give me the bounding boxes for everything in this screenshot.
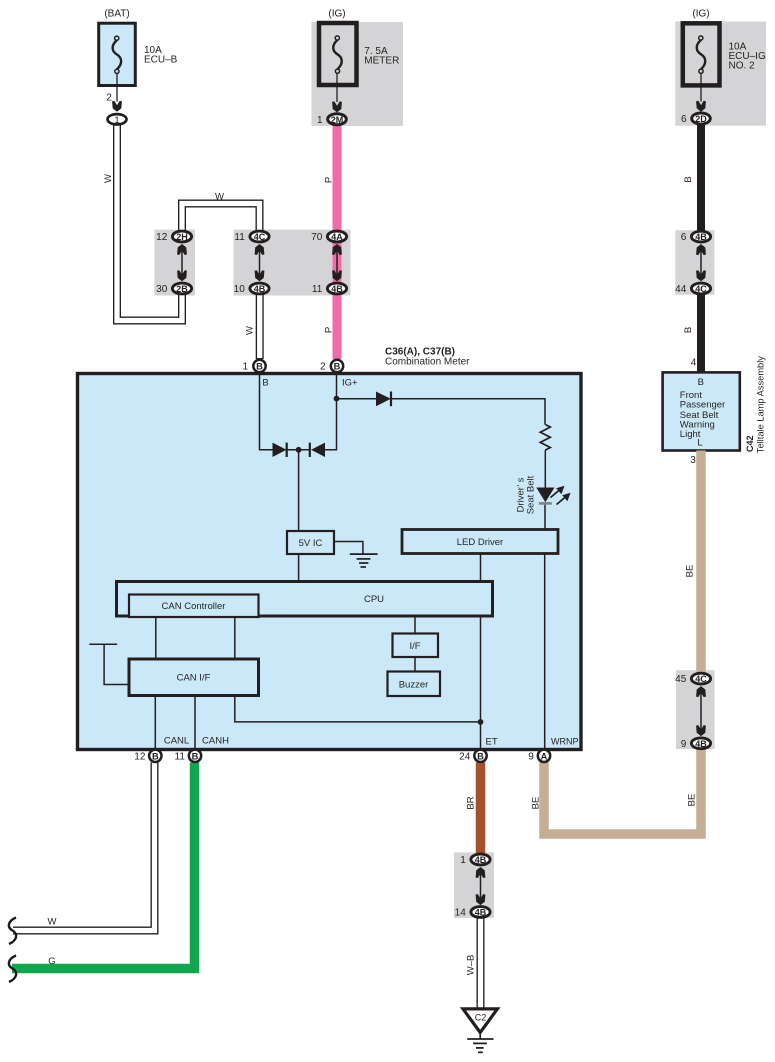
wire junction to 5V IC xyxy=(298,450,300,531)
wire B black 2D to 6(4B) xyxy=(697,125,705,231)
LED Driver box xyxy=(402,530,558,554)
svg-text:9: 9 xyxy=(681,739,687,750)
connector 11-4B xyxy=(312,283,347,295)
svg-text:4A: 4A xyxy=(331,232,343,242)
svg-text:W: W xyxy=(215,192,224,203)
terminal 1-B top of meter xyxy=(242,360,265,373)
connector arrows 4B-4B bottom xyxy=(476,867,486,905)
terminal 24-B bottom xyxy=(459,750,487,763)
termination symbol left of CAN I/F xyxy=(89,644,127,684)
svg-text:4: 4 xyxy=(691,358,697,369)
wire W white double-line 12(B) to left edge xyxy=(13,762,155,931)
gray panel (IG) METER fuse area xyxy=(312,22,404,126)
svg-text:4B: 4B xyxy=(331,284,343,294)
wire W-B white-black double-line 14(4B) to ground C2 xyxy=(477,917,485,1011)
wire IG+ down xyxy=(336,374,338,400)
svg-text:B: B xyxy=(683,176,694,182)
svg-text:2D: 2D xyxy=(695,114,707,124)
wire G green 11(B) to left edge xyxy=(12,763,195,969)
svg-text:B: B xyxy=(477,751,484,761)
svg-text:4B: 4B xyxy=(475,855,487,865)
connector 11-4C xyxy=(234,231,269,243)
wires CAN controller to CAN I/F xyxy=(155,618,157,660)
fuse 7.5A METER (IG) xyxy=(319,9,399,113)
LED driver's seat belt xyxy=(536,488,554,503)
svg-text:ET: ET xyxy=(486,737,498,748)
svg-text:12: 12 xyxy=(156,232,168,243)
diode D3 xyxy=(376,392,391,407)
wire B internal xyxy=(260,374,273,450)
svg-text:(IG): (IG) xyxy=(692,9,709,20)
CAN Controller box xyxy=(129,595,259,618)
connector 70-4A xyxy=(311,231,346,243)
wire P pink 2M to 2(B) xyxy=(333,126,342,360)
terminal 1 oval (BAT fuse) xyxy=(108,114,127,126)
wire WRNP vertical xyxy=(544,554,546,749)
wire to junction xyxy=(287,449,310,451)
connector arrows 4C-4B right mid xyxy=(696,686,706,736)
svg-text:(BAT): (BAT) xyxy=(104,9,129,20)
wire W white double-line 2H to 4C xyxy=(182,204,260,232)
connector 30-2B xyxy=(156,283,191,295)
svg-text:14: 14 xyxy=(455,908,467,919)
gray panel connector 2H/2B xyxy=(154,230,195,296)
svg-text:ECU–B: ECU–B xyxy=(144,55,178,66)
wire BE tan 9(A) to 9(4B) lower run xyxy=(544,749,701,834)
wire D2 to IG+ xyxy=(324,399,337,450)
svg-text:IG+: IG+ xyxy=(342,378,358,389)
svg-text:CAN Controller: CAN Controller xyxy=(162,601,226,612)
wire resistor to LED xyxy=(544,450,546,488)
svg-text:A: A xyxy=(541,751,548,761)
combination meter box C36/C37 xyxy=(78,374,582,750)
svg-text:1: 1 xyxy=(114,115,119,126)
svg-text:BR: BR xyxy=(466,796,477,809)
connector 1-4B bottom xyxy=(460,854,490,866)
svg-text:B: B xyxy=(683,327,694,333)
svg-text:BE: BE xyxy=(687,794,698,807)
svg-text:3: 3 xyxy=(690,455,696,466)
resistor R1 xyxy=(540,425,550,451)
svg-text:B: B xyxy=(256,362,263,372)
svg-text:C42: C42 xyxy=(745,435,755,452)
terminal 6 2D oval xyxy=(681,113,710,125)
wire CANL xyxy=(154,696,156,749)
node ET junction dot xyxy=(478,719,484,725)
gray panel connectors 4C/4B and 4A/4B xyxy=(234,230,351,296)
wire W white double-line fuse BAT to 2B xyxy=(117,124,182,321)
svg-text:4C: 4C xyxy=(254,232,266,242)
connector 9-4B right mid xyxy=(681,738,711,750)
svg-text:Combination Meter: Combination Meter xyxy=(385,357,470,368)
connector 14-4B bottom xyxy=(455,907,490,919)
connector arrows 4C-4B xyxy=(255,244,265,281)
wire CPU to I/F xyxy=(414,617,416,634)
svg-text:30: 30 xyxy=(156,284,168,295)
svg-text:1: 1 xyxy=(242,362,248,373)
I/F box xyxy=(393,634,439,658)
diode D1 xyxy=(273,443,287,457)
svg-text:P: P xyxy=(323,177,334,183)
svg-text:CAN I/F: CAN I/F xyxy=(177,673,211,684)
connector arrows 2H-2B xyxy=(177,244,187,281)
svg-text:4B: 4B xyxy=(254,284,266,294)
CAN I/F box xyxy=(129,659,259,696)
svg-text:10: 10 xyxy=(234,284,246,295)
terminal 11-B bottom xyxy=(175,750,202,763)
svg-text:11: 11 xyxy=(312,284,323,295)
svg-text:2M: 2M xyxy=(331,115,344,125)
wire BR brown 24(B) to 1(4B) xyxy=(476,763,486,854)
squiggle W left edge xyxy=(9,918,16,945)
svg-text:6: 6 xyxy=(681,232,687,243)
svg-text:P: P xyxy=(323,327,334,333)
svg-text:2B: 2B xyxy=(176,284,188,294)
svg-text:B: B xyxy=(698,377,704,388)
terminal 1 2M oval xyxy=(317,114,346,126)
svg-text:CANL: CANL xyxy=(164,736,189,747)
fuse 10A ECU-B (BAT) xyxy=(99,9,178,112)
connector 44-4C right xyxy=(675,283,710,295)
svg-text:B: B xyxy=(192,751,199,761)
svg-text:B: B xyxy=(334,362,341,372)
CPU box xyxy=(117,582,493,617)
terminal 2-B top of meter xyxy=(320,360,343,373)
svg-text:BE: BE xyxy=(531,797,542,810)
Buzzer box xyxy=(388,672,441,697)
svg-text:W: W xyxy=(244,326,255,335)
terminal 9-A bottom xyxy=(528,750,550,763)
wire B black 44(4C) to telltale terminal 4 xyxy=(697,294,705,372)
svg-text:CANH: CANH xyxy=(202,736,229,747)
connector 10-4B xyxy=(234,283,269,295)
svg-text:W–B: W–B xyxy=(466,955,477,976)
svg-text:11: 11 xyxy=(175,751,186,762)
svg-text:4B: 4B xyxy=(695,739,707,749)
wire ET vertical xyxy=(480,554,482,582)
wire IG+ to diode D3 xyxy=(337,398,377,400)
gray panel connector 1-4B/14-4B xyxy=(454,852,494,918)
wire 5V IC to CPU xyxy=(298,554,300,582)
svg-text:4B: 4B xyxy=(695,232,707,242)
telltale lamp texts xyxy=(680,356,766,466)
wire D3 to resistor branch xyxy=(391,399,545,425)
svg-text:I/F: I/F xyxy=(409,641,420,652)
wire CANH xyxy=(194,696,196,749)
svg-text:9: 9 xyxy=(528,751,534,762)
svg-text:Seat Belt: Seat Belt xyxy=(526,475,537,514)
terminal 12-B bottom xyxy=(134,750,161,763)
svg-text:NO. 2: NO. 2 xyxy=(729,61,756,72)
svg-text:2: 2 xyxy=(106,93,112,104)
svg-text:44: 44 xyxy=(675,284,687,295)
connector arrows 4B-4C right xyxy=(696,244,706,281)
svg-text:W: W xyxy=(103,174,114,183)
node junction dot xyxy=(296,447,302,453)
svg-text:5V IC: 5V IC xyxy=(299,538,323,549)
svg-text:2H: 2H xyxy=(176,232,188,242)
gray panel connector 45-4C/9-4B xyxy=(676,670,715,749)
svg-text:LED Driver: LED Driver xyxy=(457,537,503,548)
svg-text:METER: METER xyxy=(364,55,399,66)
wire CAN I/F to ET junction xyxy=(235,696,481,722)
svg-text:(IG): (IG) xyxy=(328,9,345,20)
svg-text:B: B xyxy=(262,378,268,389)
diode D2 xyxy=(309,443,311,457)
svg-text:11: 11 xyxy=(234,232,245,243)
fuse 10A ECU-IG NO.2 (IG) xyxy=(683,9,766,112)
svg-text:4C: 4C xyxy=(695,674,707,684)
svg-text:6: 6 xyxy=(681,114,687,125)
connector 12-2H xyxy=(156,231,191,243)
svg-text:70: 70 xyxy=(311,232,323,243)
5V IC box xyxy=(287,531,334,554)
svg-text:45: 45 xyxy=(675,674,687,685)
svg-text:2: 2 xyxy=(320,362,326,373)
wire W white double-line 4B to 1(B) xyxy=(256,294,264,360)
wire I/F to Buzzer xyxy=(414,657,416,672)
svg-text:1: 1 xyxy=(460,855,466,866)
svg-text:C2: C2 xyxy=(475,1013,487,1023)
connector arrows 4A-4B xyxy=(332,244,342,281)
telltale lamp assembly box C42 xyxy=(663,372,740,450)
svg-text:BE: BE xyxy=(685,565,696,578)
svg-text:1: 1 xyxy=(317,115,323,126)
svg-text:Buzzer: Buzzer xyxy=(399,679,429,690)
ground (5V IC) xyxy=(334,542,363,554)
node IG+ junction dot xyxy=(334,396,340,402)
svg-text:24: 24 xyxy=(459,751,471,762)
connector 45-4C right mid xyxy=(675,673,710,685)
svg-text:Telltale Lamp Assembly: Telltale Lamp Assembly xyxy=(756,356,766,453)
svg-text:W: W xyxy=(48,917,57,928)
gray panel (IG) ECU-IG NO.2 fuse area xyxy=(675,22,766,126)
svg-text:4C: 4C xyxy=(695,284,707,294)
svg-text:WRNP: WRNP xyxy=(551,737,579,747)
wire BE tan telltale terminal 3 to 45(4C) xyxy=(696,451,706,674)
svg-text:4B: 4B xyxy=(475,908,487,918)
svg-text:CPU: CPU xyxy=(364,594,384,605)
connector 6-4B right xyxy=(681,231,711,243)
squiggle G left edge xyxy=(9,956,16,983)
svg-text:L: L xyxy=(697,438,702,449)
ground C2 xyxy=(463,1009,497,1052)
gray panel connector 6-4B/44-4C xyxy=(675,230,714,295)
svg-text:G: G xyxy=(48,956,55,967)
svg-text:12: 12 xyxy=(134,751,146,762)
svg-text:B: B xyxy=(152,751,159,761)
